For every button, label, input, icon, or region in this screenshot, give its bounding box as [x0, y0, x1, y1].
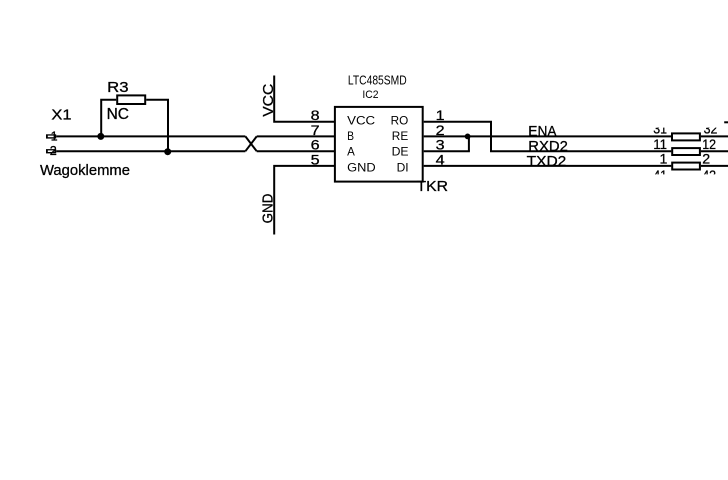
terminal X1 pin 1 — [46, 129, 58, 143]
svg-text:RXD2: RXD2 — [528, 139, 568, 155]
svg-text:2: 2 — [50, 144, 57, 158]
svg-text:6: 6 — [311, 138, 320, 153]
svg-text:GND: GND — [347, 162, 376, 174]
svg-text:R3: R3 — [107, 79, 128, 96]
wire after jumper 1 — [701, 135, 728, 137]
jumper box 1 — [672, 133, 700, 140]
node label 41 (clipped) — [653, 168, 667, 184]
svg-text:RE: RE — [392, 131, 409, 143]
svg-text:TXD2: TXD2 — [527, 154, 567, 170]
svg-text:NC: NC — [107, 106, 129, 123]
node label 31 (clipped) — [653, 122, 667, 138]
wire RO pin1 down to RXD2 — [424, 122, 672, 152]
resistor R3 body — [117, 95, 145, 104]
svg-text:VCC: VCC — [260, 83, 277, 116]
svg-text:2: 2 — [702, 152, 710, 168]
svg-text:DI: DI — [397, 162, 409, 174]
VCC net wire — [274, 76, 334, 122]
svg-text:IC2: IC2 — [362, 89, 378, 101]
wire after jumper 3 — [701, 165, 728, 167]
svg-text:ENA: ENA — [528, 124, 557, 140]
svg-text:7: 7 — [311, 123, 320, 138]
svg-text:TKR: TKR — [417, 178, 449, 195]
svg-text:B: B — [347, 131, 354, 143]
wire RE-DE tie — [468, 136, 470, 151]
svg-text:1: 1 — [660, 152, 668, 168]
wire DE pin3 stub — [424, 150, 470, 152]
svg-text:GND: GND — [260, 193, 277, 223]
terminal X1 pin 2 — [46, 144, 57, 158]
junction dot at R3 right lead / wire2 — [164, 148, 171, 155]
svg-text:LTC485SMD: LTC485SMD — [348, 72, 407, 87]
wire after jumper 2 — [701, 150, 728, 152]
svg-text:VCC: VCC — [347, 115, 375, 127]
wire wire1 from X1-1 to crossover — [56, 135, 245, 137]
wire to IC pin 7 (B) — [257, 135, 334, 137]
svg-text:Wagoklemme: Wagoklemme — [40, 163, 130, 179]
svg-text:8: 8 — [311, 108, 320, 123]
wire crossover diagonal A — [245, 136, 256, 151]
svg-text:DE: DE — [392, 147, 409, 159]
svg-text:A: A — [347, 147, 355, 159]
wire wire2 from X1-2 to crossover — [56, 150, 245, 152]
wire RE pin2 / ENA — [424, 135, 672, 137]
GND net wire — [274, 166, 334, 235]
svg-text:5: 5 — [311, 153, 320, 168]
node label 42 (clipped) — [702, 168, 716, 184]
svg-text:1: 1 — [51, 129, 58, 143]
op-amp/IC IC2 body — [335, 107, 423, 182]
resistor R3 leads — [101, 100, 116, 137]
junction dot RE/DE — [465, 134, 471, 140]
wire DI pin4 / TXD2 — [424, 165, 672, 167]
wire stub top right — [724, 121, 728, 123]
jumper box 2 — [672, 148, 700, 155]
wire crossover diagonal B — [245, 136, 256, 151]
svg-text:X1: X1 — [51, 107, 71, 124]
svg-text:RO: RO — [391, 115, 409, 127]
jumper box 3 — [672, 163, 700, 170]
node label 32 (clipped) — [704, 122, 718, 138]
junction dot at R3 left lead / wire1 — [97, 133, 104, 140]
wire to IC pin 6 (A) — [257, 150, 334, 152]
